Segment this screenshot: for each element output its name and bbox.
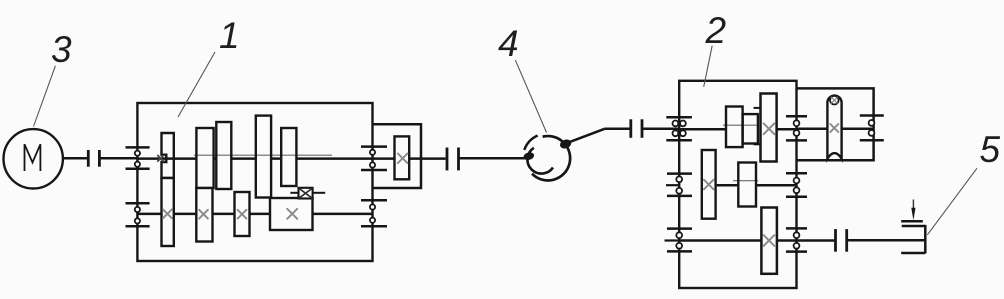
svg-text:2: 2 (705, 10, 727, 51)
svg-text:1: 1 (219, 15, 240, 56)
svg-text:3: 3 (51, 29, 72, 70)
svg-text:4: 4 (498, 23, 519, 64)
svg-text:5: 5 (980, 129, 1001, 170)
